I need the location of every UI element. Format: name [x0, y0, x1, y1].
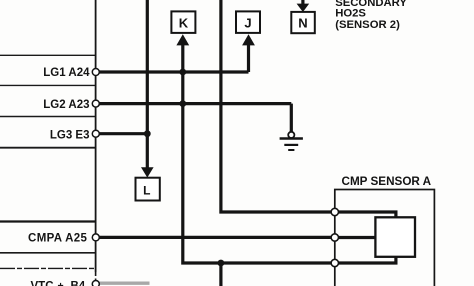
svg-text:K: K — [179, 15, 189, 30]
connector box L — [136, 178, 160, 201]
svg-text:J: J — [244, 15, 251, 30]
CMP internal wire middle pin — [336, 236, 376, 239]
CMP sensor element box — [375, 217, 415, 256]
wire branch down from bottom wire to edge — [219, 263, 222, 286]
ECM row separator line 4 — [0, 147, 95, 149]
svg-text:B4: B4 — [71, 280, 86, 286]
pin circle VTC B4 — [92, 281, 99, 286]
ECM connector edge line dashed lower — [95, 272, 97, 286]
wire J riser vertical — [247, 42, 250, 72]
pin circle LG2 A23 — [92, 100, 99, 107]
ground symbol bar 1 — [280, 137, 303, 140]
wire LG3 E3 horizontal — [97, 132, 149, 135]
svg-text:CMP SENSOR A: CMP SENSOR A — [342, 175, 432, 188]
svg-text:(SENSOR 2): (SENSOR 2) — [335, 19, 400, 31]
arrowhead into K — [176, 34, 189, 45]
ECM row separator line 2 — [0, 84, 95, 86]
wire N drop from top edge — [301, 0, 304, 5]
svg-text:VTC: VTC — [31, 280, 54, 286]
CMP pin circle bottom — [331, 259, 338, 266]
ECM row separator line 7 dash-dot — [0, 267, 95, 269]
svg-text:CMPA A25: CMPA A25 — [28, 233, 87, 245]
wire vertical from top edge to CMP top pin — [221, 0, 335, 212]
ECM row separator line 3 — [0, 116, 95, 118]
arrowhead into J — [242, 34, 255, 45]
CMP internal wire top pin — [336, 212, 396, 218]
CMP pin circle middle — [331, 234, 338, 241]
junction dot LG2/K-line — [179, 100, 186, 107]
pin circle CMPA A25 — [92, 234, 99, 241]
ECM connector edge line — [95, 0, 97, 272]
wire VTC B4 grey — [97, 282, 150, 285]
wire LG1 A24 horizontal to J riser — [97, 70, 249, 73]
junction dot LG1/K-line — [179, 69, 186, 76]
pin circle LG3 E3 — [92, 130, 99, 137]
ECM row separator line 1 — [0, 54, 95, 56]
ECM row separator line 5 thick — [0, 220, 95, 222]
wire vertical from top edge to L arrow — [146, 0, 149, 171]
ground symbol circle — [288, 132, 294, 138]
CMP sensor A outline box — [335, 190, 435, 286]
ground symbol bar 3 — [288, 149, 294, 151]
svg-text:N: N — [298, 16, 307, 31]
connector box J — [236, 11, 260, 33]
connector box N — [291, 12, 315, 33]
CMP pin circle top — [331, 208, 338, 215]
arrowhead into N — [297, 4, 310, 12]
svg-text:+: + — [58, 280, 64, 286]
connector box K — [171, 11, 195, 33]
svg-text:L: L — [143, 184, 150, 198]
wire LG2 drop to ground — [290, 104, 293, 132]
svg-text:LG1 A24: LG1 A24 — [43, 67, 90, 79]
svg-text:LG2 A23: LG2 A23 — [43, 99, 89, 111]
svg-text:LG3 E3: LG3 E3 — [50, 129, 90, 141]
junction dot LG3/L-line — [144, 130, 151, 137]
pin circle LG1 A24 — [92, 69, 99, 76]
wire LG2 A23 horizontal — [97, 102, 292, 105]
junction dot bottom wire branch — [218, 260, 225, 267]
arrowhead into L — [141, 167, 154, 177]
ground symbol bar 2 — [284, 144, 298, 146]
wire K vertical down through LG1 LG2 to bottom corner — [183, 42, 335, 263]
wire CMPA A25 horizontal — [97, 236, 335, 239]
CMP internal wire bottom pin — [336, 256, 396, 263]
svg-text:HO2S: HO2S — [335, 8, 366, 20]
ECM row separator line 6 — [0, 252, 95, 254]
